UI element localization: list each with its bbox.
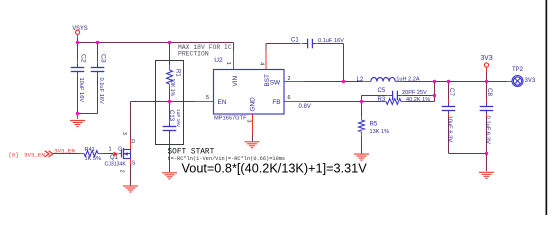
svg-text:C3: C3: [100, 54, 107, 63]
svg-text:U2: U2: [214, 57, 223, 64]
svg-text:G: G: [118, 147, 122, 153]
svg-text:3V3_EN: 3V3_EN: [54, 147, 75, 154]
svg-text:MP1657GTF: MP1657GTF: [214, 116, 247, 122]
svg-text:0.1uF 16V: 0.1uF 16V: [98, 78, 104, 104]
svg-text:20PF 25V: 20PF 25V: [402, 90, 427, 96]
svg-text:2: 2: [118, 170, 124, 173]
svg-text:C1: C1: [291, 38, 299, 44]
svg-text:C5: C5: [378, 88, 386, 94]
svg-text:13K 1%: 13K 1%: [370, 129, 390, 135]
svg-text:3V3: 3V3: [480, 55, 493, 63]
svg-text:R3: R3: [378, 97, 386, 103]
svg-text:C13: C13: [168, 110, 174, 122]
svg-text:R5: R5: [370, 122, 378, 128]
svg-text:10K 1%: 10K 1%: [169, 79, 175, 97]
svg-text:R1: R1: [175, 69, 181, 77]
svg-text:PRECTION: PRECTION: [178, 51, 209, 58]
svg-text:C2: C2: [80, 54, 87, 63]
svg-text:2: 2: [288, 76, 291, 82]
svg-text:SW: SW: [270, 80, 281, 87]
svg-text:VIN: VIN: [232, 75, 239, 86]
svg-text:C7: C7: [448, 88, 455, 96]
svg-text:0.1uF 6.3V: 0.1uF 6.3V: [485, 116, 491, 144]
svg-text:4: 4: [258, 62, 264, 65]
svg-text:1uF 16V: 1uF 16V: [175, 109, 181, 128]
svg-text:3V3: 3V3: [524, 77, 535, 84]
svg-text:TP2: TP2: [512, 66, 523, 73]
svg-text:D: D: [131, 139, 135, 145]
svg-text:EN: EN: [218, 99, 227, 106]
svg-text:5: 5: [206, 95, 209, 101]
svg-text:[6]: [6]: [9, 152, 19, 159]
svg-text:Vout=0.8*[(40.2K/13K)+1]=3.31V: Vout=0.8*[(40.2K/13K)+1]=3.31V: [182, 161, 368, 175]
svg-text:C8: C8: [486, 88, 493, 96]
svg-text:0.1uF 16V: 0.1uF 16V: [318, 38, 344, 44]
svg-text:1: 1: [109, 146, 112, 152]
svg-text:R41: R41: [85, 147, 95, 153]
svg-text:10uF 16V: 10uF 16V: [78, 78, 84, 103]
svg-text:6: 6: [288, 95, 291, 101]
svg-text:Q1: Q1: [110, 155, 119, 161]
svg-text:VSYS: VSYS: [72, 25, 88, 32]
svg-text:FB: FB: [272, 99, 280, 106]
svg-text:SOFT START: SOFT START: [168, 148, 215, 156]
svg-text:1uH 2.2A: 1uH 2.2A: [396, 77, 420, 83]
svg-text:1: 1: [225, 62, 231, 65]
svg-text:3V3_EN: 3V3_EN: [24, 152, 45, 159]
svg-text:10uF 6.3V: 10uF 6.3V: [447, 116, 453, 143]
svg-text:40.2K 1%: 40.2K 1%: [406, 97, 430, 103]
svg-text:L2: L2: [357, 77, 364, 83]
svg-text:CJ3134K: CJ3134K: [105, 161, 127, 167]
svg-text:3: 3: [121, 132, 127, 135]
svg-text:3: 3: [245, 120, 251, 123]
svg-text:S: S: [132, 161, 136, 167]
svg-text:1K 5%: 1K 5%: [85, 156, 102, 162]
svg-text:GND: GND: [249, 97, 256, 112]
svg-text:0.8V: 0.8V: [299, 104, 311, 110]
